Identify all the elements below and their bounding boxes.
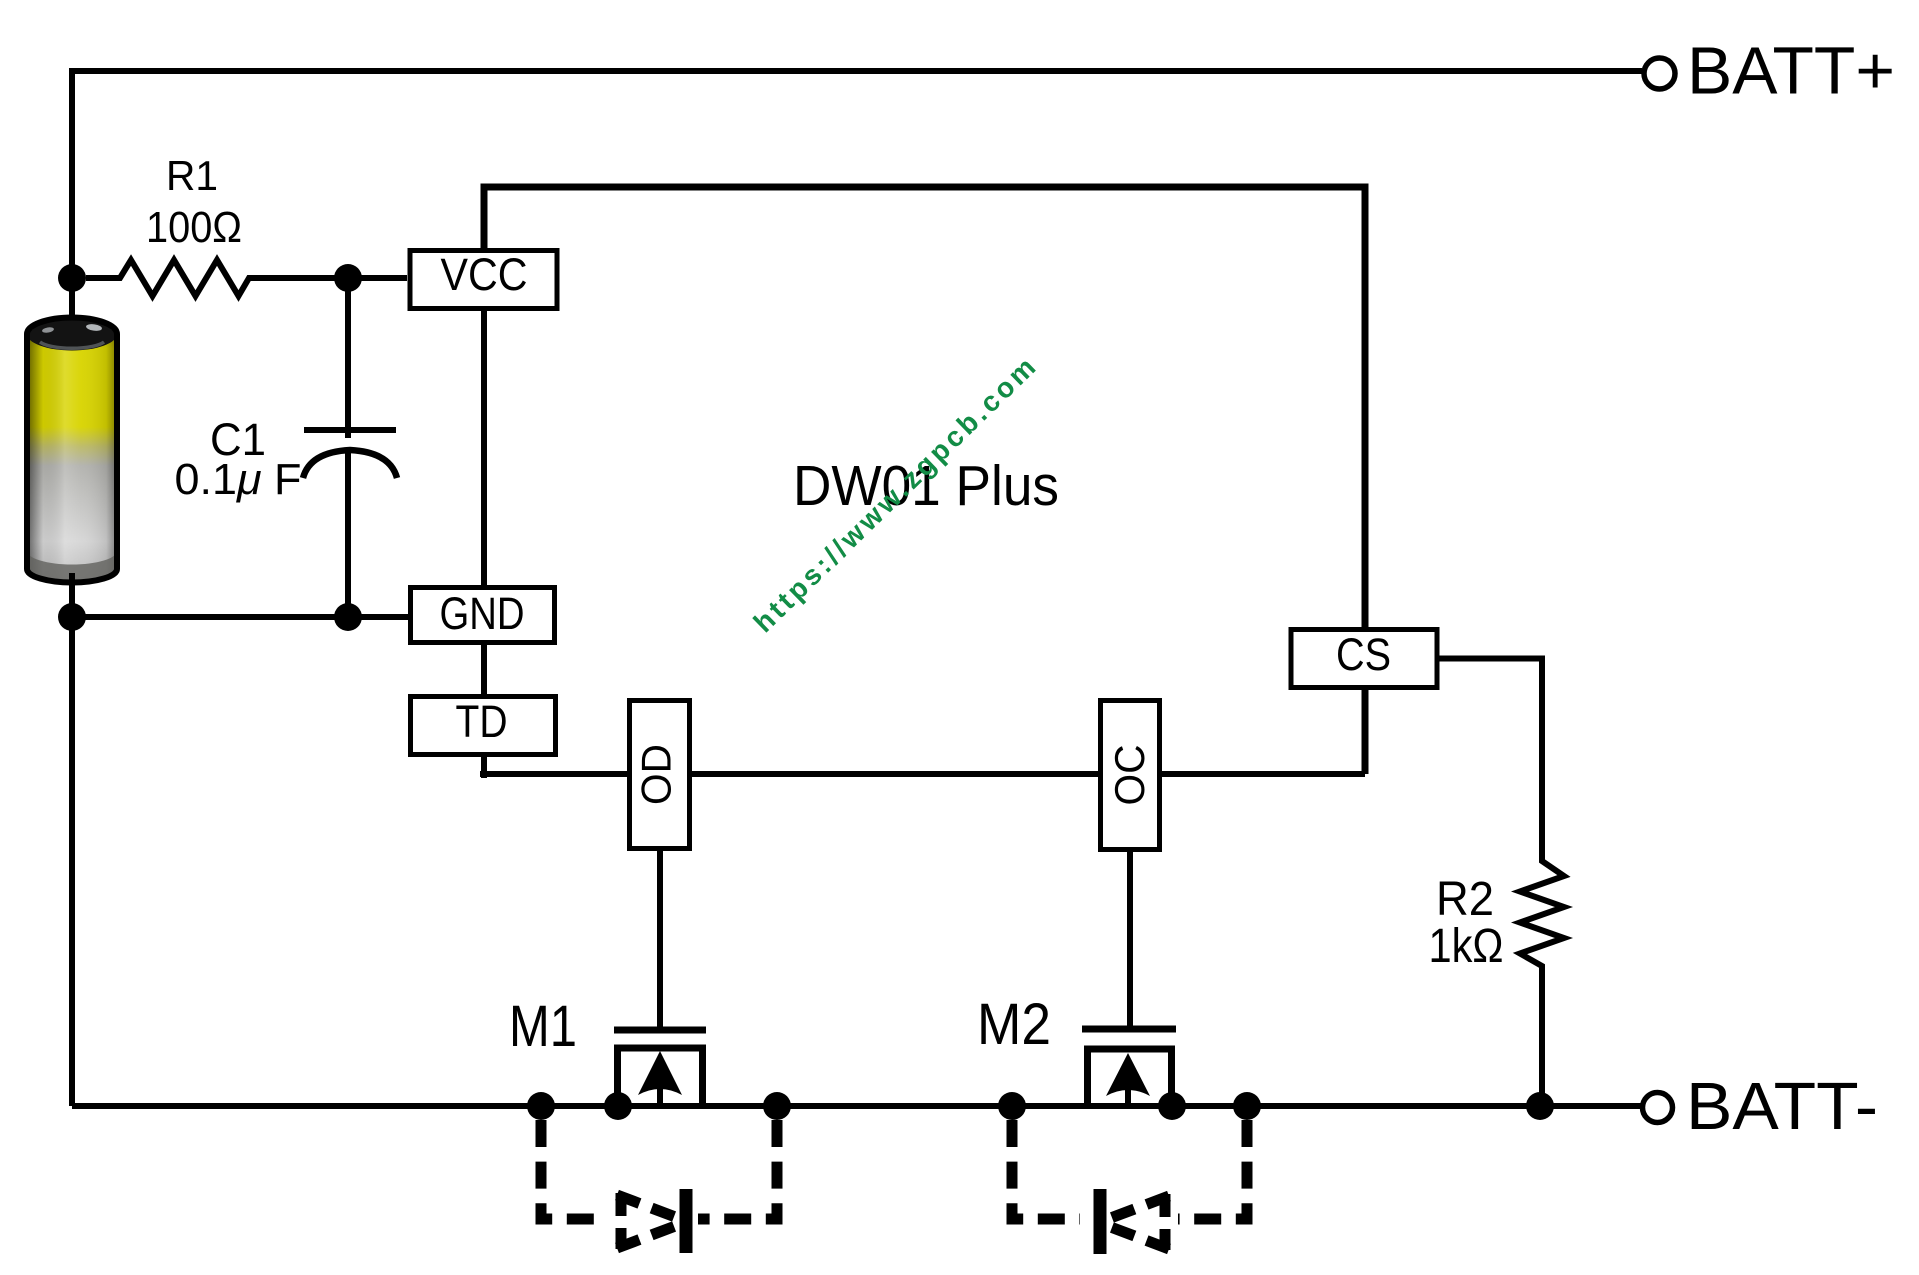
svg-text:M1: M1: [509, 994, 577, 1059]
wire R2 to BATT- rail: [1539, 975, 1545, 1106]
svg-text:R2: R2: [1436, 873, 1494, 926]
transistor M2: [1082, 1029, 1176, 1106]
terminal BATT-: [1643, 1093, 1673, 1123]
svg-text:R1: R1: [166, 152, 218, 199]
svg-text:M2: M2: [977, 992, 1051, 1057]
pin box VCC: [410, 249, 557, 309]
wire left rail bottom: [69, 573, 75, 1106]
battery B1: [27, 318, 117, 583]
wire VCC pin to GND pin: [481, 311, 487, 585]
svg-text:CS: CS: [1336, 629, 1391, 680]
wire CS pin to internal bus: [1362, 690, 1369, 774]
wire internal bus TD-OD-OC-CS: [480, 771, 1365, 777]
svg-text:GND: GND: [440, 588, 525, 639]
pin box GND: [411, 588, 555, 643]
wire R1 to VCC: [348, 275, 407, 281]
node battery top: [58, 264, 86, 292]
terminal BATT+: [1644, 58, 1675, 89]
wire bottom rail BATT-: [72, 1103, 1641, 1109]
wire OD to M1 gate: [657, 849, 663, 1027]
body diode D1 dashed loop: [541, 1120, 777, 1253]
node R2 bottom: [1526, 1092, 1554, 1120]
wire GND pin to TD pin: [481, 644, 487, 694]
svg-text:BATT-: BATT-: [1686, 1069, 1878, 1144]
pin box CS: [1291, 629, 1437, 688]
node M2 drain: [1158, 1092, 1186, 1120]
node bottom rail right of M1: [763, 1092, 791, 1120]
node C1 bottom: [334, 603, 362, 631]
node M1 source: [604, 1092, 632, 1120]
node battery bottom: [58, 603, 86, 631]
node bottom rail left of M2: [998, 1092, 1026, 1120]
svg-text:OD: OD: [633, 744, 680, 805]
wire CS to R2: [1437, 659, 1542, 859]
pin box OD: [630, 701, 690, 849]
wire left rail top: [69, 68, 75, 335]
capacitor C1: [303, 278, 397, 617]
transistor M1: [614, 1030, 706, 1106]
resistor R1: [86, 260, 348, 296]
pin box OC: [1101, 701, 1160, 850]
svg-text:OC: OC: [1106, 745, 1153, 806]
wire top rail BATT+: [72, 68, 1642, 74]
wire OC to M2 gate: [1127, 850, 1133, 1026]
node bottom rail left of M1: [527, 1092, 555, 1120]
resistor R2: [1520, 858, 1564, 975]
svg-text:BATT+: BATT+: [1687, 34, 1895, 109]
wire battery bottom to GND pin: [72, 614, 408, 620]
wire TD pin to internal bus: [481, 757, 487, 778]
svg-text:TD: TD: [456, 696, 508, 747]
wire IC top edge VCC to CS (op-amp U1 DW01 Plus outline): [484, 187, 1365, 627]
svg-text:1kΩ: 1kΩ: [1429, 920, 1504, 973]
svg-text:0.1μ F: 0.1μ F: [175, 455, 302, 504]
node R1/C1/VCC junction: [334, 264, 362, 292]
node bottom rail right of M2: [1233, 1092, 1261, 1120]
svg-text:VCC: VCC: [441, 249, 528, 300]
body diode D2 dashed loop: [1012, 1120, 1247, 1254]
svg-text:100Ω: 100Ω: [146, 203, 242, 252]
pin box TD: [411, 696, 556, 755]
